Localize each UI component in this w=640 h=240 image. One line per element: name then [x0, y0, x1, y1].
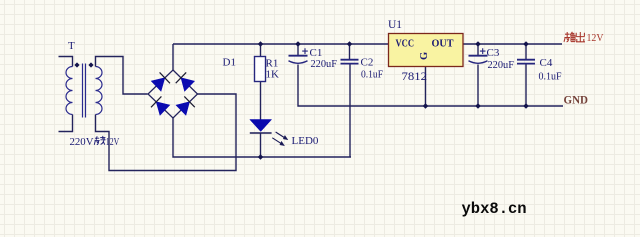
transformer T core lines	[83, 64, 86, 118]
resistor R1 body	[255, 57, 266, 82]
wire U1 gnd pin	[425, 67, 427, 107]
capacitor C3 plus sign	[480, 48, 486, 54]
junction dot C1 top	[295, 41, 301, 47]
transformer T primary bottom lead wire	[59, 115, 73, 132]
capacitor C4 plates	[517, 60, 535, 64]
diode bridge TL triangle	[151, 78, 165, 91]
junction dot C4 top	[523, 41, 529, 47]
junction dot C4 bottom	[523, 103, 529, 109]
diode bridge TR cathode bar	[176, 72, 187, 83]
wire U1 output pin to rail	[463, 43, 562, 45]
svg-text:OUT: OUT	[432, 39, 454, 50]
svg-text:220uF: 220uF	[488, 59, 515, 71]
svg-text:0.1uF: 0.1uF	[539, 71, 562, 83]
net label 输出12V	[564, 32, 585, 42]
svg-text:220uF: 220uF	[311, 58, 338, 70]
transformer T primary winding	[66, 67, 73, 115]
svg-text:G: G	[419, 52, 430, 60]
LED LED0 cathode bar	[250, 132, 272, 134]
wire bridge bottom rail	[173, 118, 351, 157]
svg-text:C2: C2	[361, 57, 374, 69]
svg-text:220V: 220V	[70, 136, 94, 148]
diode bridge BR triangle	[176, 102, 189, 115]
diode bridge TR triangle	[181, 78, 194, 91]
junction dot LED bottom	[258, 154, 264, 160]
svg-text:C4: C4	[540, 57, 553, 69]
wire R1 top	[260, 44, 262, 57]
junction dot U1 gnd	[423, 103, 429, 109]
svg-text:ybx8.cn: ybx8.cn	[462, 200, 527, 218]
wire C3 top	[477, 44, 479, 56]
regulator U1 body	[389, 34, 464, 67]
svg-text:D1: D1	[223, 57, 236, 69]
LED LED0 emission arrows	[272, 132, 288, 146]
svg-text:1K: 1K	[266, 69, 280, 81]
capacitor C1 top plate	[289, 55, 308, 57]
svg-text:C3: C3	[487, 47, 500, 59]
wire secondary top to bridge left corner	[96, 57, 148, 95]
LED LED0 triangle	[250, 120, 272, 132]
svg-text:GND: GND	[564, 95, 589, 107]
svg-text:7812: 7812	[402, 69, 428, 83]
transformer T primary top lead wire	[59, 57, 73, 67]
wire C4 bottom	[525, 64, 527, 107]
bridge rectifier D1 diamond wires	[148, 70, 198, 118]
transformer T secondary winding	[96, 67, 103, 115]
wire V+ top rail	[173, 43, 389, 45]
transformer phase dot right	[88, 62, 93, 67]
wire C1 bottom to GND rail	[298, 65, 563, 107]
svg-text:VCC: VCC	[396, 39, 415, 50]
svg-text:12V: 12V	[587, 32, 604, 44]
junction dot C3 top	[475, 41, 481, 47]
wire secondary bottom to bridge right corner	[96, 94, 237, 171]
svg-text:U1: U1	[388, 19, 402, 31]
svg-text:T: T	[68, 40, 75, 52]
wire C2 bottom crossing to lower rail	[349, 64, 351, 158]
junction dot C2 top	[347, 41, 353, 47]
capacitor C2 plates	[341, 60, 359, 64]
diode bridge BR cathode bar	[184, 96, 195, 107]
wire R1 bottom to LED	[260, 82, 262, 120]
diode bridge BL triangle	[156, 102, 170, 115]
junction dot R1 top	[258, 41, 264, 47]
wire LED cathode down	[260, 133, 262, 157]
transformer phase dot left	[74, 62, 79, 67]
svg-text:LED0: LED0	[292, 135, 319, 147]
diode bridge TL cathode bar	[160, 72, 170, 83]
wire C3 bottom	[477, 65, 479, 107]
wire C2 top	[349, 44, 351, 60]
svg-text:0.1uF: 0.1uF	[361, 69, 383, 81]
capacitor C3 curved plate	[469, 61, 488, 64]
wire bridge top corner to V+ rail	[172, 44, 174, 70]
wire C1 top	[297, 44, 299, 56]
capacitor C1 plus sign	[302, 48, 308, 54]
diode bridge BL cathode bar	[151, 96, 161, 107]
capacitor C1 curved plate	[289, 61, 308, 64]
junction dot C3 bottom	[475, 103, 481, 109]
wire C4 top	[525, 44, 527, 60]
capacitor C3 top plate	[469, 55, 488, 57]
svg-text:12V: 12V	[106, 136, 120, 148]
